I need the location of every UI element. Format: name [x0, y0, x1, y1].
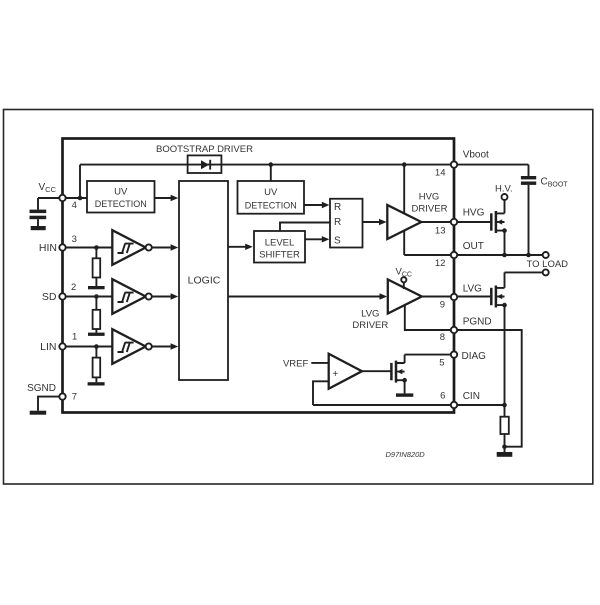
node: OUT / CBOOT junction	[526, 253, 531, 258]
capacitor CBOOT	[521, 176, 568, 188]
svg-text:8: 8	[440, 332, 445, 343]
svg-text:S: S	[334, 236, 341, 247]
ground (Vcc bypass cap)	[31, 226, 46, 230]
pin 8	[440, 327, 457, 343]
svg-text:LVG: LVG	[361, 309, 379, 320]
pin 7	[59, 392, 77, 403]
node: sense bottom junction	[502, 444, 507, 449]
wire: HVG driver output to pin 13 and Q1 gate	[421, 221, 491, 223]
svg-text:OUT: OUT	[463, 241, 484, 252]
resistor R1 (HIN pulldown)	[93, 248, 101, 287]
level shifter block	[254, 231, 305, 263]
ground (Q3 source)	[396, 393, 413, 396]
svg-text:VCC: VCC	[39, 182, 57, 194]
node: bootstrap / HVG supply junction	[402, 162, 407, 167]
svg-text:SHIFTER: SHIFTER	[259, 250, 300, 261]
wire: comparator feedback from CIN	[313, 381, 329, 405]
svg-text:SGND: SGND	[27, 383, 56, 394]
wire: CIN net (pin 6)	[313, 404, 505, 406]
wire: Q2 source down to sense resistor	[504, 305, 506, 417]
wire: SD input to schmitt	[63, 296, 113, 298]
svg-text:2: 2	[71, 282, 76, 293]
comparator U3 (VREF)	[329, 354, 362, 389]
svg-text:LVG: LVG	[463, 284, 482, 295]
wire: H.V. terminal to Q1 drain	[504, 200, 506, 213]
Vcc terminal of LVG driver	[396, 267, 412, 290]
svg-text:LOGIC: LOGIC	[188, 275, 221, 287]
RS latch block R R S	[330, 199, 363, 248]
wire: level shifter top to RS latch R	[280, 223, 330, 232]
svg-text:DIAG: DIAG	[462, 351, 487, 362]
svg-text:14: 14	[435, 167, 446, 178]
wire: bootstrap / Vboot net (pin 4 to CBOOT)	[80, 165, 529, 198]
transistor Q2 (external low-side MOSFET)	[491, 286, 507, 308]
schmitt trigger buffer (HIN)	[112, 230, 151, 265]
svg-text:+: +	[332, 369, 338, 380]
terminal TO LOAD (low side)	[543, 269, 549, 275]
transistor Q1 (external high-side MOSFET)	[491, 211, 507, 233]
svg-text:UV: UV	[264, 187, 278, 198]
svg-text:DRIVER: DRIVER	[412, 204, 448, 215]
svg-text:LEVEL: LEVEL	[265, 237, 295, 248]
schmitt trigger buffer (LIN)	[112, 329, 151, 364]
resistor R2 (SD pulldown)	[93, 297, 101, 333]
svg-text:3: 3	[72, 234, 77, 245]
UV detection block (Vboot)	[238, 181, 305, 214]
svg-text:HVG: HVG	[463, 208, 485, 219]
svg-text:UV: UV	[114, 187, 128, 198]
node: HIN / R1 junction	[94, 245, 99, 250]
wire: Q1 source to OUT	[504, 231, 506, 255]
resistor R3 (LIN pulldown)	[93, 347, 101, 383]
node: CIN junction	[502, 403, 507, 408]
pin 13	[435, 219, 457, 237]
wire: Q3 source to ground	[404, 380, 406, 393]
wire: Vcc pin 4 net into UV detection	[38, 198, 87, 210]
svg-text:4: 4	[72, 200, 77, 211]
wire: OUT net pin 12 to load	[404, 254, 543, 256]
svg-text:1: 1	[72, 332, 77, 343]
wire: SGND pin 7 to ground	[38, 397, 63, 411]
svg-text:VCC: VCC	[396, 267, 412, 279]
pin 5	[439, 351, 457, 368]
wire: RS latch to HVG driver	[363, 219, 387, 225]
pin 2	[59, 282, 76, 300]
svg-text:5: 5	[439, 358, 444, 369]
transistor Q3 (DIAG, internal)	[391, 361, 407, 383]
svg-text:LIN: LIN	[40, 341, 56, 353]
UV detection block (Vcc)	[87, 181, 155, 213]
wire: UV2 to RS latch R	[304, 202, 329, 208]
svg-text:TO LOAD: TO LOAD	[527, 259, 569, 270]
svg-text:7: 7	[72, 392, 77, 403]
terminal TO LOAD (OUT)	[527, 252, 569, 270]
svg-text:9: 9	[440, 300, 445, 311]
wire: load terminal 2 to Q2 drain	[505, 272, 543, 288]
ground (R3)	[88, 382, 105, 385]
svg-text:H.V.: H.V.	[495, 184, 513, 195]
wire: LIN input to schmitt	[63, 346, 113, 348]
svg-text:PGND: PGND	[463, 317, 492, 328]
op-amp HVG driver U1	[387, 192, 447, 240]
svg-text:13: 13	[435, 225, 446, 236]
pin 1	[59, 332, 77, 350]
wire: schmitt 2 out to logic	[152, 293, 179, 299]
ground (sense resistor)	[497, 452, 513, 457]
svg-text:D97IN820D: D97IN820D	[386, 450, 426, 459]
pin 3	[59, 234, 77, 251]
wire: logic to level shifter	[228, 244, 253, 250]
pin 9	[440, 294, 457, 311]
node: OUT / Q1 source junction	[502, 253, 507, 258]
label VREF and input wire	[283, 358, 329, 369]
svg-text:Vboot: Vboot	[463, 150, 489, 161]
svg-text:DETECTION: DETECTION	[245, 200, 297, 210]
node: SD / R2 junction	[94, 294, 99, 299]
wire: PGND external to sense node	[454, 330, 522, 447]
svg-text:12: 12	[435, 258, 446, 269]
svg-text:DETECTION: DETECTION	[95, 199, 147, 209]
wire: DIAG pin 5 to Q3 drain	[405, 355, 454, 363]
svg-text:R: R	[334, 217, 341, 228]
wire: logic to LVG driver	[228, 293, 387, 299]
svg-text:CIN: CIN	[463, 391, 480, 402]
ground (R2)	[88, 333, 105, 336]
wire: CBOOT leads	[528, 165, 530, 255]
resistor R4 (current sense)	[500, 417, 508, 434]
wire: LVG driver return to PGND pin 8	[405, 301, 454, 330]
node: bootstrap / UV2 junction	[269, 162, 274, 167]
IC package outline	[63, 139, 455, 413]
wire: HIN input to schmitt	[63, 247, 113, 249]
svg-text:BOOTSTRAP DRIVER: BOOTSTRAP DRIVER	[156, 144, 253, 155]
pin 14	[435, 161, 457, 178]
svg-text:6: 6	[440, 390, 445, 401]
pin 6	[440, 390, 457, 408]
logic block	[179, 181, 228, 380]
wire: schmitt 1 out to logic	[152, 244, 179, 250]
wire: comparator output to Q3 gate	[362, 370, 391, 372]
schmitt trigger buffer (SD)	[112, 279, 151, 314]
wire: UV detection to logic	[155, 195, 179, 201]
wire: LVG driver output to pin 9 and Q2 gate	[422, 296, 492, 298]
diode D1 (bootstrap)	[201, 160, 210, 170]
terminal H.V.	[495, 184, 513, 200]
wire: bootstrap drop to HVG driver supply and OUT return	[403, 165, 405, 255]
node: LIN / R3 junction	[94, 344, 99, 349]
wire: schmitt 3 out to logic	[152, 343, 179, 349]
svg-text:HIN: HIN	[39, 242, 57, 254]
wire: bootstrap drop to UV detection 2	[270, 165, 272, 181]
capacitor C1 (Vcc bypass)	[30, 210, 47, 226]
svg-text:VREF: VREF	[283, 358, 309, 369]
svg-text:DRIVER: DRIVER	[352, 320, 388, 331]
svg-text:HVG: HVG	[419, 192, 440, 203]
ground (R1)	[88, 286, 105, 289]
svg-text:SD: SD	[42, 291, 57, 303]
pin 4	[59, 195, 77, 211]
pin 12	[435, 252, 457, 269]
svg-text:R: R	[334, 202, 341, 213]
svg-text:CBOOT: CBOOT	[541, 177, 569, 189]
bootstrap diode box	[188, 155, 222, 173]
node: pin4/bootstrap junction	[78, 196, 83, 201]
op-amp LVG driver U2	[352, 280, 421, 332]
ground (SGND)	[30, 411, 47, 415]
wire: level shifter to RS latch S	[305, 236, 329, 242]
